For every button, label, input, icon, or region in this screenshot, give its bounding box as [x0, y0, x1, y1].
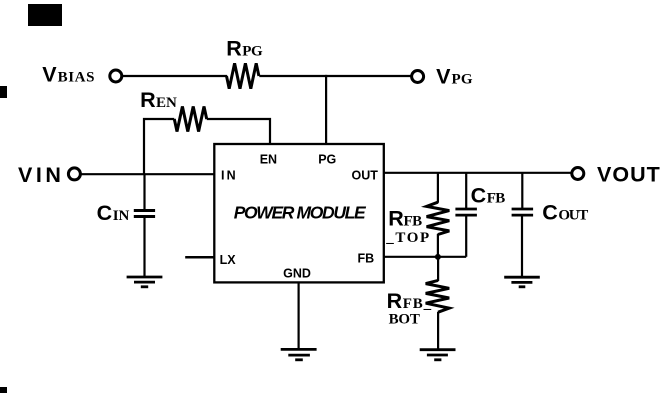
svg-text:FB: FB [404, 214, 423, 230]
svg-text:V: V [42, 62, 57, 86]
wire PG drop to module [325, 75, 327, 144]
node VOUT terminal [572, 168, 584, 180]
svg-text:BOT: BOT [389, 312, 420, 328]
ground under module [281, 349, 317, 359]
wire CFB drop [465, 173, 467, 209]
svg-text:EN: EN [156, 95, 177, 111]
wire VBIAS to RPG [123, 75, 228, 77]
capacitor COUT [512, 208, 533, 211]
svg-text:C: C [471, 183, 487, 207]
svg-text:V: V [436, 65, 451, 89]
ground under COUT [504, 277, 540, 287]
node VIN terminal [68, 168, 80, 180]
capacitor CIN [134, 209, 155, 212]
capacitor CFB [455, 208, 477, 211]
wire RFB_TOP lower lead [437, 234, 439, 257]
svg-text:BIAS: BIAS [58, 69, 95, 85]
svg-text:OUT: OUT [352, 169, 379, 183]
svg-text:FB: FB [487, 190, 506, 206]
black artifact mark left edge [0, 86, 7, 98]
svg-text:VIN: VIN [18, 163, 64, 187]
svg-text:FB_: FB_ [403, 296, 432, 312]
svg-text:FB: FB [358, 252, 375, 266]
resistor RFB_BOT [426, 280, 450, 312]
wire RFB_BOT to ground [437, 312, 439, 350]
wire FB to node [384, 256, 466, 258]
ground under CIN [127, 277, 163, 287]
svg-text:EN: EN [260, 153, 277, 167]
wire COUT to ground [521, 215, 523, 277]
wire GND drop [298, 282, 300, 349]
wire LX stub [185, 256, 214, 259]
junction node FB [435, 254, 441, 260]
wire OUT rail to VOUT [384, 172, 571, 174]
wire REN right lead to EN pin [207, 119, 270, 144]
wire COUT drop [521, 173, 523, 209]
wire RFB_TOP upper lead [437, 173, 439, 203]
svg-text:PG: PG [452, 72, 473, 88]
resistor RPG [227, 63, 259, 88]
svg-text:LX: LX [220, 253, 237, 267]
svg-text:VOUT: VOUT [597, 163, 661, 187]
wire CFB lower lead [465, 215, 467, 257]
ground under RFB_BOT [420, 350, 456, 360]
svg-text:IN: IN [221, 169, 238, 183]
svg-text:OUT: OUT [558, 207, 588, 223]
svg-text:POWER MODULE: POWER MODULE [234, 203, 367, 223]
resistor RFB_TOP [427, 202, 450, 234]
svg-text:R: R [140, 88, 156, 112]
svg-text:IN: IN [113, 208, 130, 224]
svg-text:R: R [226, 37, 242, 61]
black artifact speck bottom-left corner [0, 387, 7, 393]
node VPG terminal [412, 71, 424, 83]
black artifact rectangle top-left [28, 4, 62, 26]
resistor REN [174, 107, 206, 132]
wire CIN drop [143, 174, 145, 210]
svg-text:PG: PG [318, 153, 336, 167]
svg-text:C: C [97, 201, 113, 225]
wire RFB_BOT upper lead [437, 257, 439, 281]
svg-text:R: R [388, 207, 404, 231]
svg-text:PG: PG [242, 44, 263, 60]
svg-text:R: R [387, 289, 403, 313]
svg-text:C: C [542, 200, 558, 224]
svg-text:GND: GND [283, 267, 311, 281]
wire CIN to ground [143, 217, 145, 278]
svg-text:_TOP: _TOP [385, 230, 430, 246]
node VBIAS terminal [110, 70, 122, 82]
wire REN left lead [144, 119, 174, 174]
wire VIN to module IN [81, 173, 214, 175]
power module U1 box [214, 144, 383, 282]
wire RPG to VPG [259, 75, 411, 77]
